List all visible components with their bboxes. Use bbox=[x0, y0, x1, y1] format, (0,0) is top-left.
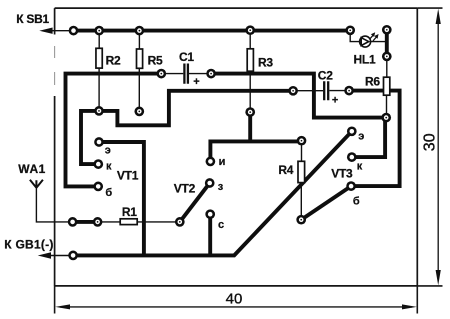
svg-text:VT3: VT3 bbox=[331, 167, 353, 181]
svg-text:R2: R2 bbox=[106, 54, 121, 68]
pad node N R3 bottom bbox=[245, 107, 255, 117]
pad node H C1 right bbox=[206, 69, 216, 79]
svg-text:R4: R4 bbox=[278, 163, 293, 177]
pad node O R6 bottom bbox=[381, 113, 391, 123]
wire C1-right to node O bbox=[211, 74, 386, 118]
LED HL1 bbox=[350, 32, 385, 66]
resistor R5 bbox=[137, 33, 164, 108]
svg-text:VT2: VT2 bbox=[174, 181, 196, 195]
svg-text:+: + bbox=[193, 76, 199, 88]
wire top bus SB1 bbox=[74, 29, 351, 33]
pad node L R2 bottom bbox=[94, 106, 104, 116]
pad node S R1 left bbox=[93, 217, 103, 227]
svg-text:к: к bbox=[106, 161, 112, 173]
pad node G C1 left bbox=[156, 69, 166, 79]
antenna WA1 bbox=[18, 162, 72, 222]
svg-text:C2: C2 bbox=[318, 68, 333, 82]
pad node U GB1 bbox=[68, 251, 78, 261]
svg-text:C1: C1 bbox=[179, 50, 194, 64]
svg-text:VT1: VT1 bbox=[117, 168, 139, 182]
transistor VT3 bbox=[331, 126, 364, 207]
svg-text:R6: R6 bbox=[365, 74, 380, 88]
svg-text:R1: R1 bbox=[122, 205, 137, 219]
wire R2-bottom to VT1 collector bbox=[81, 111, 99, 164]
resistor R6 bbox=[365, 59, 390, 115]
wire C1-left to VT1 base bbox=[66, 74, 162, 187]
svg-text:HL1: HL1 bbox=[354, 53, 376, 67]
wire VT1 emitter to bottom bus bbox=[99, 142, 144, 255]
svg-text:и: и bbox=[219, 156, 226, 168]
net K GB1(-) arrow bbox=[4, 237, 73, 258]
pad node Q R4 bottom bbox=[296, 215, 306, 225]
dimension line 40 (bottom) bbox=[55, 286, 418, 314]
pad node C R5 top bbox=[135, 26, 145, 36]
svg-text:R5: R5 bbox=[148, 54, 163, 68]
pad node I R6 top bbox=[382, 52, 392, 62]
pad node E HL1 anode bbox=[345, 25, 355, 35]
wire VT2 gate diagonal to R1 bbox=[180, 183, 210, 222]
wire R3-bottom to VT2 source and R4 bbox=[210, 112, 301, 161]
svg-text:WA1: WA1 bbox=[18, 162, 46, 176]
resistor R2 bbox=[96, 33, 121, 108]
wire R2-bottom to C2-left bbox=[99, 91, 293, 126]
pad node P R4 top bbox=[297, 136, 307, 146]
wire WA1 pad link bbox=[73, 220, 98, 224]
wire HL1 cathode link bbox=[385, 30, 389, 57]
svg-text:К GB1(-): К GB1(-) bbox=[4, 237, 53, 251]
pad node K C2 right bbox=[344, 86, 354, 96]
wire bottom bus GB1 with diagonal to VT3 emitter bbox=[73, 131, 352, 255]
pad node F HL1 cathode top bbox=[382, 25, 392, 35]
svg-text:б: б bbox=[105, 187, 112, 199]
svg-text:+: + bbox=[332, 95, 338, 107]
resistor R3 bbox=[247, 33, 273, 109]
resistor R1 bbox=[101, 205, 177, 224]
pad node D R3 top bbox=[245, 25, 255, 35]
svg-text:R3: R3 bbox=[258, 55, 273, 69]
svg-text:К SB1: К SB1 bbox=[16, 12, 49, 26]
pad node A top bus bbox=[69, 26, 79, 36]
svg-text:30: 30 bbox=[421, 133, 438, 151]
svg-text:40: 40 bbox=[226, 291, 243, 308]
svg-text:э: э bbox=[105, 145, 111, 157]
svg-text:с: с bbox=[218, 219, 224, 231]
pad node M R5 bottom bbox=[134, 107, 144, 117]
wire VT2 drain to bottom bus bbox=[208, 214, 212, 255]
transistor VT1 bbox=[93, 137, 138, 199]
dimension line 30 (right) bbox=[417, 8, 442, 286]
svg-text:б: б bbox=[353, 195, 360, 207]
wire VT3 base to R4-bottom bbox=[301, 186, 351, 220]
wire C2-right to VT3 base bbox=[349, 91, 400, 187]
wire VT3 collector to node O bbox=[352, 118, 385, 158]
svg-text:з: з bbox=[218, 181, 224, 193]
pad node J C2 left bbox=[288, 86, 298, 96]
pad node R WA1 bbox=[68, 217, 78, 227]
svg-text:к: к bbox=[357, 160, 363, 172]
capacitor C2 bbox=[296, 68, 346, 106]
board outline bbox=[55, 8, 418, 286]
transistor VT2 bbox=[174, 156, 226, 231]
svg-text:э: э bbox=[358, 131, 364, 143]
net K SB1 arrow bbox=[16, 12, 73, 34]
pad node T R1 right bbox=[175, 217, 185, 227]
resistor R4 bbox=[278, 144, 304, 216]
capacitor C1 bbox=[165, 50, 208, 88]
pad node B R2 top bbox=[94, 26, 104, 36]
